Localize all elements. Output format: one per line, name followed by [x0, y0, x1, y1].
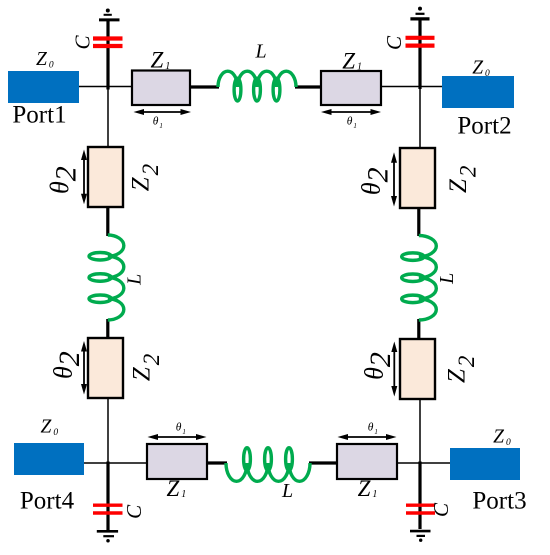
svg-text:C: C: [382, 35, 406, 50]
svg-text:L: L: [281, 480, 293, 502]
svg-text:L: L: [254, 41, 266, 63]
svg-text:Port1: Port1: [12, 102, 66, 129]
svg-text:Port3: Port3: [472, 488, 526, 515]
svg-text:L: L: [436, 273, 458, 285]
svg-text:Port2: Port2: [457, 113, 511, 140]
svg-text:L: L: [124, 274, 146, 286]
svg-text:C: C: [429, 502, 453, 517]
svg-text:Port4: Port4: [20, 488, 75, 515]
svg-text:C: C: [122, 504, 146, 519]
svg-text:C: C: [71, 35, 95, 50]
